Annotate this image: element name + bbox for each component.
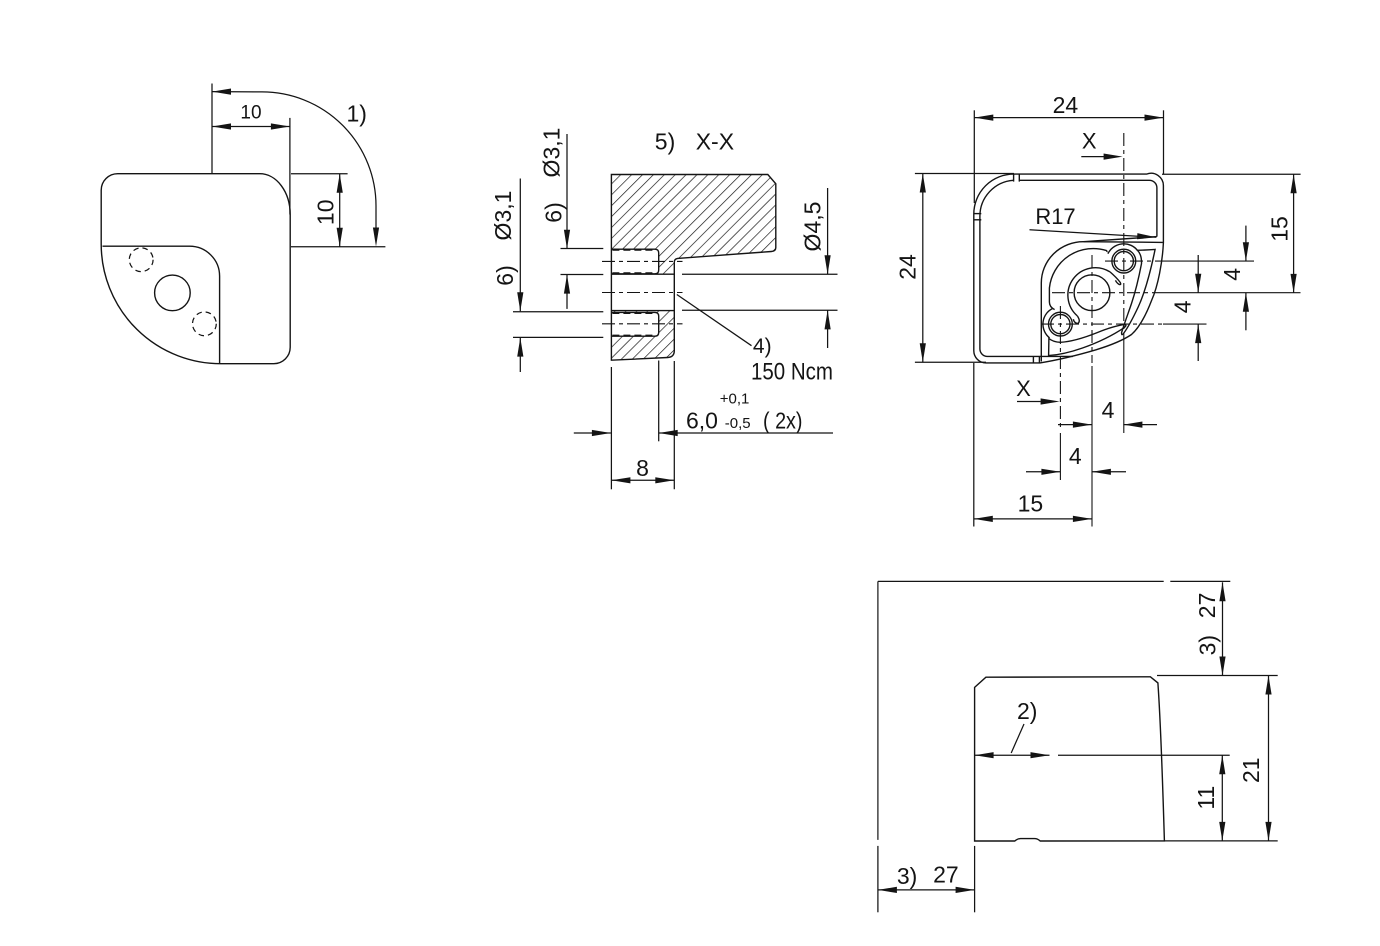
svg-text:10: 10 <box>312 200 338 226</box>
view1 boss boundary interior line <box>103 246 220 363</box>
svg-text:Ø3,1: Ø3,1 <box>490 191 516 241</box>
view3 screw hole 1 rings <box>1112 249 1136 273</box>
view3 hole1 pocket arc <box>1108 244 1138 254</box>
view4 leader 2) <box>1011 724 1024 753</box>
threaded hole tab 2 outline <box>611 312 658 336</box>
svg-text:150 Ncm: 150 Ncm <box>751 358 833 385</box>
svg-text:( 2x): ( 2x) <box>763 408 803 434</box>
dim 8 <box>611 479 674 481</box>
view1 hidden screw hole (dashed circle upper-left) <box>129 248 153 272</box>
view3 dim 15 right <box>1162 173 1301 175</box>
svg-text:R17: R17 <box>1035 204 1075 229</box>
svg-text:-0,5: -0,5 <box>725 415 751 432</box>
view4 dim 3) 27 bottom <box>877 846 879 912</box>
view3 wall joint ticks top <box>1013 174 1015 181</box>
view3 wall joint ticks left <box>974 213 981 215</box>
svg-text:27: 27 <box>1194 593 1220 619</box>
svg-text:X: X <box>1082 129 1097 154</box>
svg-text:1): 1) <box>346 101 366 127</box>
view3 centerlines <box>1041 133 1163 429</box>
view3 screw hole 2 rings <box>1049 312 1073 336</box>
thread minor lines tab1 <box>612 250 656 335</box>
svg-text:24: 24 <box>1053 92 1079 118</box>
dim line D4,5 <box>827 188 829 274</box>
dim 6,0 tolerance <box>574 432 611 434</box>
center hole bore lines <box>611 273 674 275</box>
view3 dim 4 bottom second <box>1026 471 1060 473</box>
view1 part outline (bottom view of corner cap) <box>101 174 290 364</box>
view3 inner wall line <box>1019 180 1157 236</box>
view3 slot upper (curved slot near hole1) <box>1122 249 1156 334</box>
view1 extension line right vertical <box>289 118 291 215</box>
svg-text:15: 15 <box>1018 491 1044 517</box>
svg-text:2): 2) <box>1017 698 1037 724</box>
view3 outer wall outline <box>974 173 1164 363</box>
view1 hidden screw hole (dashed circle lower-right) <box>193 312 217 336</box>
svg-text:4: 4 <box>1102 397 1115 423</box>
view3 rib arc inner r27.5 <box>1068 268 1110 316</box>
view3 slot lower (curved slot near hole2) <box>1049 325 1126 356</box>
view3 rib hook near hole1 <box>1110 272 1121 285</box>
view4 dim 11 <box>1221 755 1223 841</box>
view4 extension line top (21/27) <box>1157 675 1278 677</box>
svg-text:21: 21 <box>1238 757 1264 783</box>
view3 rib hook near hole2 <box>1073 316 1079 324</box>
view3 dim 4 bottom first <box>1058 424 1092 426</box>
svg-text:3): 3) <box>1194 635 1220 655</box>
centerline center hole <box>602 292 683 294</box>
svg-text:24: 24 <box>895 254 921 280</box>
leader 4) 150 Ncm <box>677 295 752 346</box>
view1 dim 10 vertical <box>339 174 341 247</box>
svg-text:4): 4) <box>753 335 772 358</box>
view3 X top marker arrow <box>1081 156 1104 158</box>
view1 extension line left vertical <box>211 84 213 174</box>
view4 dim 3) 27 right top <box>1222 582 1224 675</box>
svg-text:4: 4 <box>1069 443 1082 469</box>
view3 main center hole <box>1074 275 1110 311</box>
section X-X outline <box>611 175 775 361</box>
svg-text:Ø4,5: Ø4,5 <box>800 202 826 252</box>
svg-text:+0,1: +0,1 <box>720 391 750 408</box>
svg-text:5): 5) <box>655 129 675 155</box>
view3 boss left edge and corner arc <box>1041 242 1083 362</box>
svg-text:4: 4 <box>1170 300 1196 313</box>
view4 profile reference lines <box>878 581 1230 840</box>
view4 extension line for 11 <box>1058 754 1230 756</box>
svg-text:10: 10 <box>240 103 261 124</box>
view4 part outline (side view) <box>975 677 1165 841</box>
view3 boss top wedge lower line <box>1084 241 1163 244</box>
svg-text:15: 15 <box>1267 216 1293 242</box>
centerline tab2 <box>602 323 683 325</box>
view4 dim 21 <box>1268 676 1270 841</box>
view4 dim 2) arrows <box>975 754 1050 756</box>
svg-text:6): 6) <box>492 265 518 285</box>
svg-text:11: 11 <box>1193 786 1219 810</box>
view3 boss top wedge upper line <box>1084 237 1157 242</box>
dim line D3,1 outer (tab2) <box>519 179 521 312</box>
svg-text:4: 4 <box>1219 268 1245 281</box>
svg-text:X-X: X-X <box>696 129 734 155</box>
section X-X hatched body <box>611 175 775 361</box>
view1 extension line top edge extended right <box>291 173 348 175</box>
view3 rib arc outer r44 <box>1049 249 1107 310</box>
view3 dim 24 top <box>973 110 975 203</box>
view1 top dim line with arc 1) <box>212 92 376 238</box>
svg-text:3): 3) <box>897 863 917 889</box>
svg-text:Ø3,1: Ø3,1 <box>539 128 565 178</box>
view4 extension line bottom <box>1164 840 1277 842</box>
view3 dim 15 bottom <box>973 363 975 527</box>
view3 wall joint ticks bottom <box>1032 356 1034 362</box>
view1 extension line interior edge extended right <box>291 246 385 248</box>
view3 R17 leader <box>1030 230 1157 238</box>
svg-text:X: X <box>1016 376 1031 401</box>
view3 dim 24 left <box>915 173 1014 175</box>
view3 X bottom marker arrow <box>1017 401 1041 403</box>
svg-text:6,0: 6,0 <box>686 408 718 434</box>
svg-text:8: 8 <box>636 455 649 481</box>
svg-text:27: 27 <box>933 862 959 888</box>
svg-text:6): 6) <box>541 202 567 222</box>
threaded hole tab 1 outline <box>611 249 658 274</box>
view1 dim 10 horizontal <box>212 126 290 128</box>
view1 center hole <box>155 275 191 311</box>
view3 hole2 pocket arc <box>1043 308 1053 338</box>
dim line D3,1 inner (tab1) <box>566 134 568 249</box>
view3 dim 4 right upper <box>1245 226 1247 262</box>
centerline tab1 <box>602 260 683 262</box>
view3 dim 4 right lower <box>1197 255 1199 293</box>
